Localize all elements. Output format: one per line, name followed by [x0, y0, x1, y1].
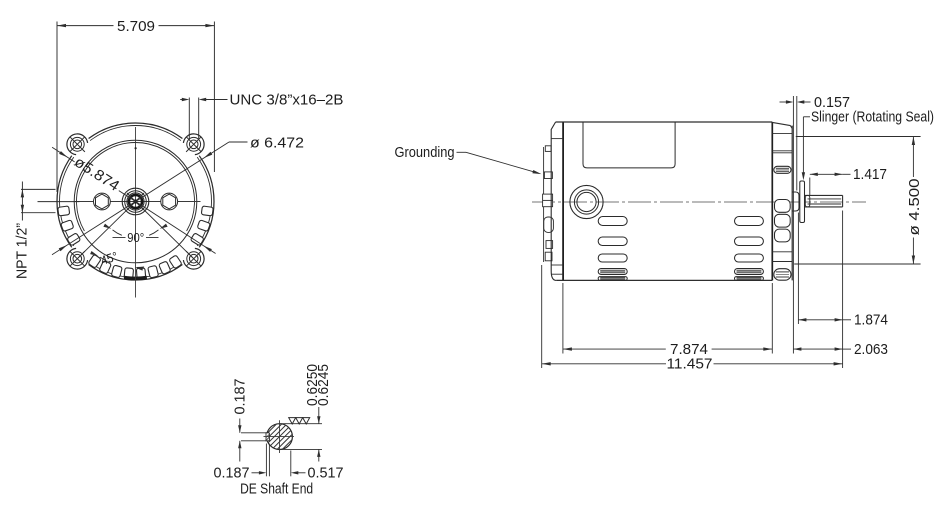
mounting ear lobe top-left [67, 134, 88, 155]
dimensions 0.187 and 0.517 keyway flat [214, 444, 344, 482]
dimension 5.709 housing diameter [57, 18, 214, 192]
bolt hole top-left [70, 137, 85, 152]
front view horizontal centerline [74, 201, 201, 203]
shaft end section (hatched) [243, 421, 317, 453]
dimension diameter 6.472 with leader [52, 134, 304, 254]
svg-text:1.874: 1.874 [854, 312, 888, 329]
mounting ear lobe bottom-right [183, 248, 204, 269]
side view shaft centerline [532, 201, 866, 203]
motor shaft with keyway [805, 195, 843, 207]
terminal box [583, 122, 675, 168]
bearing hub [792, 192, 799, 211]
rear end bracket with vents [772, 122, 792, 280]
svg-text:0.517: 0.517 [308, 465, 344, 482]
dimension 0.157 slinger gap [780, 94, 851, 354]
svg-text:DE Shaft End: DE Shaft End [240, 481, 313, 497]
label DE Shaft End [240, 481, 313, 497]
dimension 1.874 [798, 213, 888, 329]
mounting flange band [551, 122, 563, 280]
dimension 1.417 shaft extension [810, 166, 887, 195]
mounting ear lobe bottom-left [67, 248, 88, 269]
dimension 2.063 [793, 341, 888, 358]
dimension diameter 4.500 bracket [794, 137, 923, 265]
svg-text:2.063: 2.063 [854, 341, 888, 358]
svg-text:5.709: 5.709 [117, 18, 155, 35]
callout grounding screw [395, 144, 542, 174]
dimension diameter 5.874 bolt circle [52, 147, 216, 253]
shaft hub outer circle [122, 188, 149, 215]
center punch dot [135, 147, 137, 149]
svg-text:11.457: 11.457 [667, 356, 713, 373]
svg-text:Grounding: Grounding [395, 144, 455, 161]
shaft bore cross [127, 193, 144, 210]
svg-text:UNC 3/8”x16–2B: UNC 3/8”x16–2B [230, 91, 344, 108]
45-degree line to bottom-right ear [136, 202, 194, 259]
body vent slots [598, 217, 763, 281]
motor body outline [556, 122, 773, 280]
dimension 11.457 overall length [542, 211, 843, 373]
svg-text:0.187: 0.187 [232, 379, 249, 415]
callout UNC 3/8 x16-2B tapped holes [180, 91, 343, 139]
svg-text:0.6245: 0.6245 [315, 364, 332, 406]
detail crosshairs [264, 420, 295, 453]
dimension 0.187 keyway width [232, 379, 267, 462]
svg-text:0.157: 0.157 [814, 94, 850, 111]
svg-text:ø 6.472: ø 6.472 [250, 134, 304, 151]
svg-text:90°: 90° [127, 231, 144, 245]
svg-text:1.417: 1.417 [853, 166, 887, 183]
bolt hole top-right [186, 137, 201, 152]
bolt hole bottom-right [186, 251, 201, 266]
dimension 45 degrees [90, 249, 144, 270]
motor housing inner wall circle [59, 126, 211, 278]
shaft hub middle circle [125, 191, 147, 213]
dimension 0.6250 0.6245 shaft diameter [281, 364, 332, 462]
motor housing outer circle [57, 123, 214, 280]
shaft hub inner circle [127, 193, 144, 210]
drive end cap with grounding screw [543, 146, 554, 262]
dimension 90 degrees between mounting holes [103, 224, 167, 246]
end-bell face inner circle [76, 143, 194, 231]
keyway notch [264, 433, 270, 441]
svg-text:0.187: 0.187 [214, 465, 250, 482]
hex plug left [94, 193, 111, 210]
dimension 7.874 body length [563, 283, 772, 358]
shaft bore dark ring [129, 195, 142, 208]
thick vent band arc bottom [124, 276, 147, 280]
svg-text:NPT 1/2”: NPT 1/2” [13, 223, 30, 279]
end-bell face circle [74, 140, 197, 263]
housing vent slots ring [58, 206, 214, 280]
callout NPT 1/2 conduit hole [13, 182, 79, 280]
svg-text:ø 4.500: ø 4.500 [906, 179, 923, 236]
front view vertical centerline [135, 127, 137, 298]
machined surface symbol [289, 418, 310, 424]
svg-text:Slinger (Rotating Seal): Slinger (Rotating Seal) [811, 110, 934, 126]
bearing boss circles [570, 185, 603, 218]
hex plug right [161, 193, 178, 210]
slinger disc [800, 181, 805, 223]
mounting ear lobe top-right [183, 134, 204, 155]
bolt hole bottom-left [70, 251, 85, 266]
callout slinger rotating seal [802, 110, 934, 181]
45-degree line to bottom-left ear [77, 202, 135, 259]
